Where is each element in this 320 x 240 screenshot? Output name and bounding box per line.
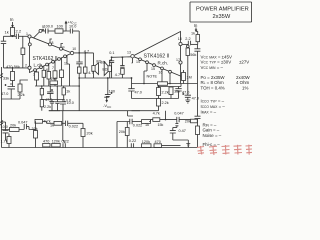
svg-text:0.1: 0.1 [109,51,114,55]
svg-text:1M: 1M [187,76,192,80]
wire L output [74,52,94,54]
speaker L 8ohm [92,53,102,78]
svg-text:4.7k: 4.7k [153,112,160,116]
svg-text:Noise = –: Noise = – [203,133,222,138]
svg-text:VCC TYP = ±30V: VCC TYP = ±30V [201,60,232,65]
resistor 2.2k L fb [18,80,28,99]
svg-text:±27V: ±27V [239,60,249,65]
pin 9 [60,44,65,51]
svg-text:Po = 2x35W: Po = 2x35W [201,75,226,80]
capacitor 0.1 R series [120,56,124,67]
svg-text:33k: 33k [3,77,9,81]
svg-text:2.2: 2.2 [185,37,190,41]
wire pin5 row stub [42,30,46,32]
input In R [194,23,198,32]
svg-text:9: 9 [63,46,65,50]
svg-text:2.2k: 2.2k [18,93,25,97]
resistor 1k L low [50,121,65,127]
svg-text:7: 7 [52,66,54,70]
svg-text:10: 10 [72,47,76,51]
resistor R chain [181,126,200,148]
svg-text:1k: 1k [50,123,54,127]
capacitor 0.047 R [174,112,184,123]
capacitor 47.0 R b [175,87,189,99]
capacitor 47.0 R gnd [182,84,199,101]
svg-text:2: 2 [25,64,27,68]
pins bottom edge R [136,58,141,64]
wire bias to pin2 [4,55,28,68]
svg-text:1: 1 [26,32,28,36]
pin 1 [26,32,31,38]
-Vcc rail [49,110,140,112]
capacitor 47.0 R a [128,58,142,99]
pin 13 output [127,50,134,58]
capacitor 2.2k L lower [49,100,54,111]
wire riser rail to row [165,111,167,120]
title box [190,2,252,22]
wire to -vcc rail [49,110,60,112]
wire R cluster row [149,120,190,122]
pin 10 output [70,47,76,55]
wire bottom rail [2,147,181,149]
resistor 100 R on rail [158,82,168,86]
svg-text:2.2k: 2.2k [162,91,169,95]
+Vcc arrow L [65,20,78,32]
capacitor 0.022 L [65,121,83,129]
svg-text:1k: 1k [5,30,9,35]
svg-text:-VCC: -VCC [103,103,112,109]
svg-text:20k: 20k [119,130,125,134]
capacitor 0.22 R fb [129,139,136,148]
svg-text:8Ω: 8Ω [102,67,107,72]
wire mid rail R down step [132,78,198,84]
svg-text:13: 13 [127,50,131,54]
pins bottom edge [33,69,36,77]
resistor 4.7k R low [153,112,160,122]
resistor 15k R [169,87,180,99]
svg-text:100: 100 [51,77,57,81]
resistor 20k R fb [119,122,129,148]
resistor 2.2k L mid tier1 [40,86,43,100]
pin 2 [25,64,31,70]
svg-text:56k: 56k [190,53,196,57]
wire rail to fb R [128,111,133,116]
svg-text:STK4162 II: STK4162 II [144,53,170,59]
wire bootstrap down [78,31,80,53]
wire zobel L down [72,78,80,111]
svg-text:20k: 20k [185,120,191,124]
svg-text:IMAX = –: IMAX = – [201,110,217,115]
frame left border wire [1,67,3,148]
bottom row L: resistor 470 [43,140,50,147]
ground R [173,140,191,148]
capacitor 470 L bias [1,41,13,69]
svg-text:470: 470 [6,65,12,69]
svg-text:POWER AMPLIFIER: POWER AMPLIFIER [196,7,249,13]
resistor 4.7 speaker L [83,52,93,78]
svg-text:100.0: 100.0 [44,25,54,29]
svg-text:Gain = –: Gain = – [203,128,220,133]
op-amp U1 STK4162 II L.ch [30,36,73,72]
wire R edge corner down [180,76,182,84]
svg-text:2.2k: 2.2k [44,105,51,109]
pin 17 [176,58,182,64]
svg-text:VCC MIN = –: VCC MIN = – [201,65,224,70]
svg-text:120k: 120k [142,140,150,144]
svg-text:14: 14 [136,60,140,64]
wire R network bottom [132,98,179,100]
svg-text:0.022: 0.022 [133,124,143,128]
wire pin stubs R down [144,64,147,84]
svg-text:1%: 1% [242,85,248,90]
bottom row L: resistor 120k [52,140,61,147]
svg-text:15k: 15k [174,90,180,94]
svg-text:15k: 15k [158,123,164,127]
resistor 2.2k R b [140,99,169,111]
bottom row R: resistor 470 [154,140,181,148]
watermark red [197,145,252,155]
resistor 100 under [50,77,58,84]
wire fb R riser [117,111,140,148]
resistor 1M R [182,70,192,84]
svg-text:56k: 56k [14,65,20,69]
capacitor 2.2 R input [182,37,198,45]
resistor 33k L low [32,127,38,148]
capacitor 0.047 L [18,121,33,130]
capacitor 100.0 decoupling L [42,25,55,34]
resistor 20k L low [2,124,25,132]
svg-text:0.22: 0.22 [129,139,136,143]
wire L mid tier [42,86,64,100]
resistor 3.3k R low [0,0,1,1]
capacitor 10.0 bottom left of rail [60,99,74,111]
svg-text:RIN = –: RIN = – [203,122,217,127]
pin 8 [49,39,54,46]
capacitor 47.0 L fb [1,84,15,99]
svg-text:8: 8 [52,41,54,45]
svg-text:470: 470 [155,140,161,144]
svg-text:2.2k: 2.2k [162,101,169,105]
capacitor 470 R bias [194,44,200,51]
svg-text:0.047: 0.047 [174,112,184,116]
resistor 1k R low [142,120,151,128]
wire mid rail L [79,77,131,79]
resistor 4.7 speaker R [115,68,124,78]
svg-text:0.047: 0.047 [18,121,28,125]
capacitor 10.0 L lower [55,98,71,110]
resistor 1k L input [5,27,15,36]
capacitor 10.0 decoupling L [66,25,79,34]
svg-text:2x35W: 2x35W [213,14,231,20]
resistor 1.7k corner [1,134,12,148]
svg-text:2.2: 2.2 [16,29,22,34]
wire under triangle [35,85,72,87]
svg-text:47.0: 47.0 [135,91,142,95]
wire R output [112,56,131,59]
svg-text:0.022: 0.022 [69,125,79,129]
capacitor 10.0 corner [1,122,9,140]
resistors under L triangle [35,71,39,86]
speaker R 8ohm [100,59,111,78]
svg-text:17: 17 [176,58,180,62]
wire fb L riser [62,111,64,124]
capacitor 0.22 L fb [62,123,69,147]
svg-text:TOH = 0.4%: TOH = 0.4% [201,85,225,90]
svg-text:15: 15 [151,67,155,71]
svg-text:20k: 20k [87,132,93,136]
resistor 2.2k L mid tier2 [40,100,51,111]
pin input R [179,42,182,45]
svg-text:4 Ohm: 4 Ohm [236,80,250,85]
wire R input chain down [197,51,199,116]
svg-text:R.ch.: R.ch. [158,61,169,66]
resistor 1k R input [191,31,200,44]
svg-text:100: 100 [57,25,63,29]
capacitor R chain [195,116,201,126]
wire input left to bias [4,36,13,41]
capacitor 10.0 R corner [170,128,177,141]
svg-text:47.0: 47.0 [182,91,189,95]
svg-text:RL = 8 Ohm: RL = 8 Ohm [201,80,224,85]
resistor 4.7k L low [35,119,54,129]
svg-text:ICCO TYP = –: ICCO TYP = – [201,99,225,104]
svg-text:20k: 20k [10,124,16,128]
svg-text:NOTE: NOTE [147,75,158,79]
capacitor 2.2 L input [13,29,28,39]
resistor 1k L [62,86,70,100]
svg-text:0.47: 0.47 [179,129,186,133]
svg-text:10.0: 10.0 [64,98,71,102]
svg-text:VCC MAX = ±45V: VCC MAX = ±45V [201,54,232,59]
svg-text:4.7: 4.7 [88,71,93,75]
bottom row R: resistor 120k [142,140,152,148]
op-amp U2 STK4162 II R.ch [133,32,181,77]
svg-text:ICCO MAX = –: ICCO MAX = – [201,104,226,109]
capacitor 0.1 zobel L [76,50,89,64]
svg-text:0.22: 0.22 [62,140,69,144]
capacitor 47.0 L mid [45,86,54,102]
svg-text:47.0: 47.0 [1,92,8,96]
resistor 4.7 zobel L [77,64,81,78]
svg-text:4.7: 4.7 [115,73,120,77]
capacitor 100 mid [105,77,115,96]
pin 4 [28,43,31,46]
resistor 56k L bias [14,36,25,69]
capacitor 0.47 R [175,122,185,133]
wire break marks [0,74,3,79]
capacitor 0.1 zobel R [109,56,114,78]
svg-text:10.0: 10.0 [1,125,8,129]
resistor 100 decoupling L [55,25,66,34]
pin 5 [34,25,45,38]
svg-text:2x40W: 2x40W [236,75,251,80]
resistor 33k L fb [3,67,15,84]
input In L [10,17,14,27]
svg-text:1k: 1k [191,31,195,35]
svg-text:18: 18 [178,37,182,41]
capacitor 0.022 R [117,119,142,128]
svg-text:10.0: 10.0 [69,25,76,29]
wire R second tier [159,84,182,87]
resistor 56k R bias [186,44,197,83]
svg-text:1k: 1k [66,89,70,93]
-Vcc symbol [103,97,112,109]
resistor 100 R low [191,119,198,123]
wire fb bottom [2,98,21,100]
resistor 20k L fb [81,123,93,147]
resistor 2.2k R a [157,86,169,99]
ground R mid [185,100,190,103]
